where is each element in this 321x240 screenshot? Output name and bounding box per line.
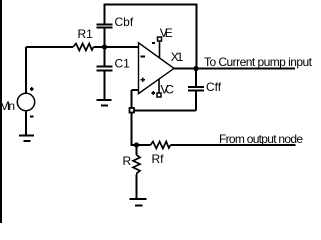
svg-text:R1: R1 bbox=[78, 27, 94, 41]
svg-text:VC: VC bbox=[160, 83, 174, 97]
wire plus input vertical bbox=[131, 90, 133, 146]
wire opamp output bbox=[174, 68, 295, 70]
wire top feedback right vertical bbox=[196, 5, 198, 69]
svg-text:X1: X1 bbox=[171, 50, 184, 64]
pin VC stub bbox=[158, 79, 160, 94]
capacitor Cbf bbox=[97, 25, 113, 28]
wire from output node bbox=[171, 144, 296, 146]
ground under source bbox=[19, 136, 34, 142]
ground under C1 bbox=[97, 100, 112, 106]
svg-text:Cff: Cff bbox=[206, 80, 222, 94]
resistor R1 bbox=[73, 44, 94, 51]
node B junction dot bbox=[134, 142, 139, 147]
wire node to C1 bbox=[104, 47, 106, 67]
node A junction dot bbox=[102, 44, 107, 49]
svg-text:Cbf: Cbf bbox=[115, 15, 134, 29]
wire source vertical bbox=[25, 47, 27, 93]
pin VE stub bbox=[159, 41, 161, 58]
wire Cbf top stub bbox=[104, 5, 106, 25]
wire Cbf bottom to node bbox=[104, 28, 106, 48]
wire node B to R bbox=[136, 145, 138, 155]
source minus mark bbox=[30, 116, 33, 118]
ground under R bbox=[130, 199, 147, 206]
wire Cff bottom vertical bbox=[195, 91, 197, 111]
resistor Rf bbox=[151, 142, 171, 149]
voltage source VIn bbox=[17, 93, 34, 110]
pin VC square bbox=[157, 93, 161, 97]
node output junction dot bbox=[193, 66, 198, 71]
wire node to Cff bbox=[195, 69, 197, 88]
wire source top horizontal bbox=[26, 46, 73, 48]
svg-text:R: R bbox=[123, 154, 132, 168]
wire top feedback horizontal bbox=[104, 4, 198, 6]
svg-text:From output node: From output node bbox=[219, 132, 303, 146]
svg-text:Rf: Rf bbox=[152, 152, 165, 166]
wire R to ground bbox=[136, 175, 138, 199]
left border line bbox=[0, 0, 2, 223]
capacitor C1 bbox=[97, 67, 113, 71]
pin VE minus mark bbox=[152, 42, 155, 44]
wire source to ground bbox=[25, 112, 27, 136]
wire C1 to ground bbox=[104, 71, 106, 101]
wire R1 to opamp minus input bbox=[94, 46, 139, 48]
op-amp plus input mark bbox=[141, 77, 145, 81]
pin VC plus mark bbox=[152, 91, 156, 95]
op-amp minus input mark bbox=[141, 56, 145, 58]
wire bottom jog bbox=[132, 144, 151, 146]
resistor R bbox=[133, 155, 140, 175]
wire opamp plus input horizontal bbox=[132, 89, 139, 91]
svg-text:To Current pump input: To Current pump input bbox=[204, 55, 313, 69]
svg-text:VIn: VIn bbox=[1, 99, 16, 113]
svg-text:C1: C1 bbox=[115, 57, 131, 71]
wire Cff bottom horizontal to plus input net bbox=[133, 110, 196, 112]
op-amp X1 triangle bbox=[139, 43, 175, 94]
pin plus input square bbox=[130, 108, 135, 113]
source plus mark bbox=[30, 87, 34, 91]
pin VE square bbox=[158, 37, 162, 41]
capacitor Cff bbox=[188, 87, 204, 91]
svg-text:VE: VE bbox=[160, 26, 173, 40]
